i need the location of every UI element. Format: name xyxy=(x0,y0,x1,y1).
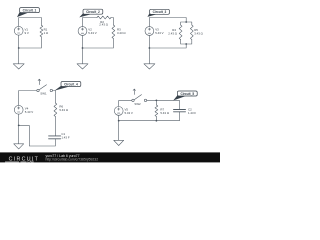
svg-text:Circuit_1: Circuit_1 xyxy=(23,8,37,12)
label R5 3.43Ohm xyxy=(194,28,203,35)
ground (Circuit_2) xyxy=(77,48,88,69)
node junction below V5 xyxy=(118,120,120,122)
node junction below V4 xyxy=(18,125,20,127)
node junction below V3 xyxy=(149,47,151,49)
CircuitLab logo xyxy=(5,157,39,164)
ground (Circuit_5) xyxy=(114,121,124,146)
ground (Circuit_4) xyxy=(14,125,24,148)
voltage source V3 xyxy=(145,27,154,36)
label SW2 xyxy=(134,102,141,106)
resistor R1 xyxy=(40,25,43,37)
svg-text:5.43 Ω: 5.43 Ω xyxy=(160,111,169,115)
wire: R6 to C1 xyxy=(54,117,56,136)
node junction R7 bottom xyxy=(156,120,158,122)
svg-text:1.43 F: 1.43 F xyxy=(61,136,69,140)
switch SW2 xyxy=(132,89,147,102)
svg-text:1.43 F: 1.43 F xyxy=(188,111,196,115)
resistor R3 xyxy=(112,25,115,39)
wire: parallel ladder top bar xyxy=(181,22,192,25)
label R6 5.43Ohm xyxy=(59,104,68,112)
svg-text:2.43 Ω: 2.43 Ω xyxy=(168,32,177,36)
voltage source V1 xyxy=(14,26,23,35)
wire: Circuit_3 outer loop xyxy=(149,18,186,49)
svg-text:http://circuitlab.com/c/7385rj: http://circuitlab.com/c/7385rj/59232 xyxy=(46,158,99,162)
label V5 5.43V xyxy=(125,108,133,116)
wire: V5 bottom to junction xyxy=(118,115,120,120)
footer text xyxy=(46,154,99,162)
svg-text:3.43 Ω: 3.43 Ω xyxy=(117,31,126,35)
svg-text:Circuit_2: Circuit_2 xyxy=(86,10,100,14)
svg-text:Circuit_3: Circuit_3 xyxy=(153,10,167,14)
wire: junction to C1 bottom xyxy=(19,125,56,146)
svg-text:LAB: LAB xyxy=(28,160,35,164)
switch SW1 xyxy=(37,79,53,92)
node junction below V1 xyxy=(18,47,20,49)
capacitor C2 xyxy=(174,110,186,112)
label C1 1.43F xyxy=(61,132,69,140)
wire: Circuit_2 loop xyxy=(83,18,114,49)
ground (Circuit_3) xyxy=(144,48,155,69)
svg-text:9 V: 9 V xyxy=(25,31,29,35)
wire: Circuit_5 top left xyxy=(119,100,132,106)
wire: Circuit_4 top left xyxy=(19,91,37,106)
wire: parallel ladder bottom bar xyxy=(181,40,192,45)
wire: Circuit_1 loop xyxy=(19,18,42,49)
node ladder top xyxy=(185,21,187,23)
label R3 3.43Ohm xyxy=(117,28,126,35)
svg-text:SW2: SW2 xyxy=(134,102,141,106)
svg-text:5.43 V: 5.43 V xyxy=(125,111,133,115)
label C2 1.43F xyxy=(188,108,196,116)
voltage source V5 xyxy=(114,107,123,116)
label R4 2.43Ohm xyxy=(168,28,177,35)
label V4 5.43V xyxy=(25,107,33,115)
label R2 2.43Ohm xyxy=(99,20,108,27)
wire: bottom bus Circuit_5 xyxy=(119,112,180,121)
label R1 1Ohm xyxy=(44,27,49,35)
label box Circuit_1 xyxy=(17,8,39,18)
node junction R7 top xyxy=(156,100,158,102)
label box Circuit_4 xyxy=(55,82,81,91)
resistor R5 xyxy=(190,25,193,40)
node ladder bottom xyxy=(185,43,187,45)
svg-text:Circuit_5: Circuit_5 xyxy=(180,92,194,96)
svg-text:5.43 V: 5.43 V xyxy=(155,31,163,35)
label V2 5.43V xyxy=(88,28,96,35)
svg-text:3.43 Ω: 3.43 Ω xyxy=(194,32,203,36)
resistor R6 xyxy=(54,103,57,117)
svg-text:5.43 V: 5.43 V xyxy=(88,31,96,35)
node junction below V2 xyxy=(82,47,84,49)
resistor R2 xyxy=(97,16,111,19)
wire: V4 bottom to junction xyxy=(18,114,20,125)
label R7 5.43Ohm xyxy=(160,107,169,115)
svg-text:5.43 Ω: 5.43 Ω xyxy=(59,108,68,112)
label V1 9V xyxy=(25,27,29,35)
svg-text:SW1: SW1 xyxy=(40,91,47,95)
resistor R7 xyxy=(155,105,158,117)
svg-text:2.43 Ω: 2.43 Ω xyxy=(99,23,108,27)
wire: switch to C2 corner xyxy=(147,100,180,109)
voltage source V2 xyxy=(78,27,87,36)
wire: switch to branch corner xyxy=(53,91,56,104)
voltage source V4 xyxy=(14,105,23,114)
label SW1 xyxy=(40,91,47,95)
label box Circuit_5 xyxy=(173,91,197,101)
svg-text:5.43 V: 5.43 V xyxy=(25,110,33,114)
capacitor C1 xyxy=(49,136,61,139)
label box Circuit_2 xyxy=(79,9,103,17)
svg-text:Circuit_4: Circuit_4 xyxy=(64,82,78,86)
resistor R4 xyxy=(179,25,182,40)
footer bar xyxy=(0,152,220,162)
ground (Circuit_1) xyxy=(13,48,24,69)
label V3 5.43V xyxy=(155,28,163,35)
label box Circuit_3 xyxy=(147,9,169,17)
wire: R7 branch top xyxy=(155,100,157,105)
